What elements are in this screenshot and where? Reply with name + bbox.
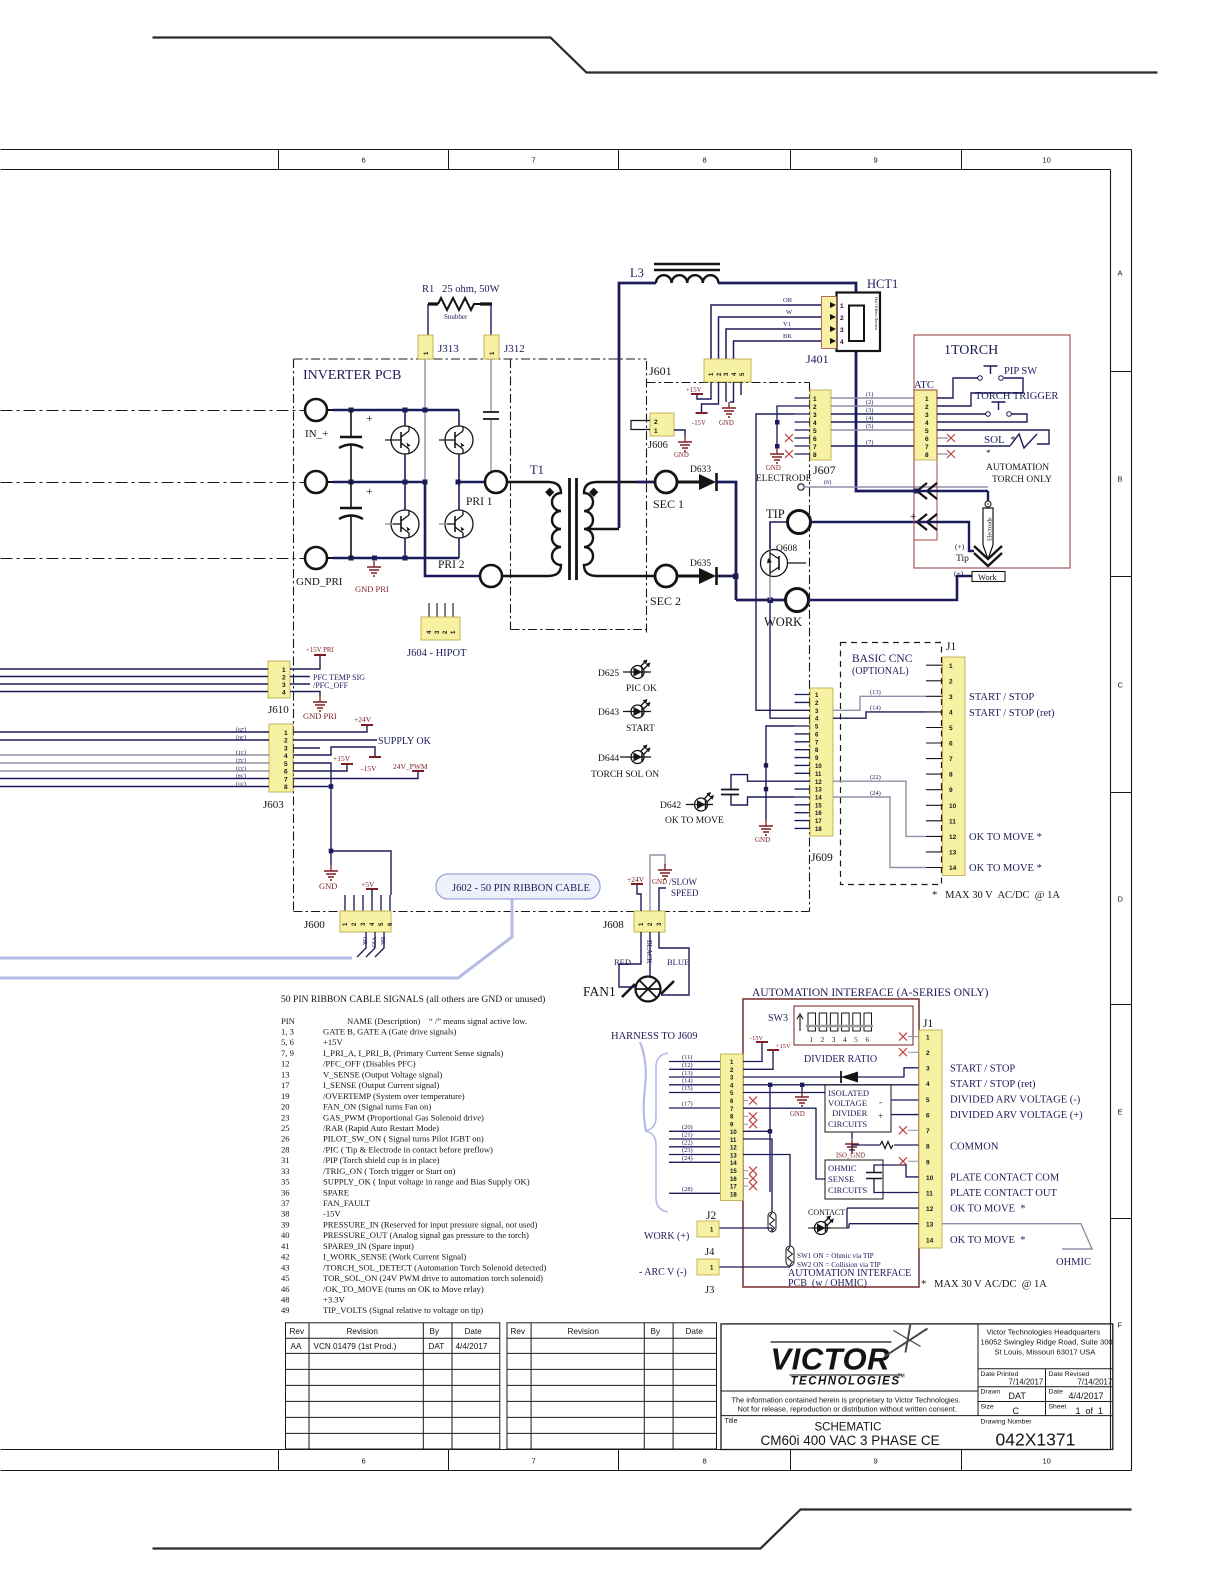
svg-text:I_SENSE (Output Current signal: I_SENSE (Output Current signal) <box>323 1080 439 1090</box>
svg-text:-15V: -15V <box>361 764 377 773</box>
J607 left stubs <box>795 398 811 454</box>
svg-text:Snubber: Snubber <box>444 313 468 321</box>
wire L3 to HCT1 down to torch <box>718 283 916 491</box>
J607 right wires to ATC <box>831 397 916 399</box>
svg-text:GND PRI: GND PRI <box>303 711 337 721</box>
svg-text:7: 7 <box>925 444 929 451</box>
wires HCT1 to J601 <box>711 305 821 359</box>
svg-text:*: * <box>986 448 991 458</box>
wire (22) J609 p12 to J1 p12 <box>833 781 926 836</box>
svg-text:/RAR (Rapid Auto Restart Mode): /RAR (Rapid Auto Restart Mode) <box>323 1123 439 1133</box>
svg-text:SW3: SW3 <box>768 1013 788 1024</box>
svg-text:ISOLATED: ISOLATED <box>828 1088 869 1098</box>
gnd bus J609 pins 5,10,13 <box>766 726 795 820</box>
svg-text:(+): (+) <box>954 569 964 578</box>
svg-text:5: 5 <box>854 1036 858 1044</box>
wire secondary to SEC1 <box>637 481 655 484</box>
svg-text:(28): (28) <box>682 1186 693 1193</box>
automation signal labels <box>950 1064 1083 1247</box>
connector J610 <box>268 661 290 698</box>
svg-text:J2: J2 <box>706 1210 716 1222</box>
svg-text:49: 49 <box>281 1305 290 1315</box>
svg-text:11: 11 <box>926 1191 933 1198</box>
svg-text:BLACK: BLACK <box>645 940 653 964</box>
svg-text:J1: J1 <box>923 1018 933 1030</box>
svg-text:14: 14 <box>926 1238 934 1245</box>
J610 pin1 +15V PRI <box>290 655 320 669</box>
title block right column <box>981 1328 1113 1357</box>
T1 secondary winding <box>584 482 655 576</box>
svg-text:25: 25 <box>281 1123 290 1133</box>
svg-text:1: 1 <box>840 303 844 310</box>
svg-text:+15V: +15V <box>333 754 351 763</box>
svg-text:17: 17 <box>281 1080 290 1090</box>
svg-text:Q608: Q608 <box>776 544 797 554</box>
svg-text:43: 43 <box>281 1262 290 1272</box>
svg-text:Electrode: Electrode <box>987 517 994 541</box>
svg-text:INVERTER PCB: INVERTER PCB <box>303 368 401 383</box>
pin12/13 wires <box>847 1208 919 1224</box>
svg-text:1, 3: 1, 3 <box>281 1027 294 1037</box>
svg-text:GND: GND <box>755 836 770 844</box>
signal PFC TEMP SIG <box>290 676 310 678</box>
svg-text:CM60i 400 VAC 3 PHASE CE: CM60i 400 VAC 3 PHASE CE <box>761 1433 940 1448</box>
svg-text:14: 14 <box>815 796 822 802</box>
svg-text:J312: J312 <box>504 343 525 355</box>
svg-text:PRESSURE_OUT (Analog signal ga: PRESSURE_OUT (Analog signal gas pressure… <box>323 1230 529 1240</box>
J601 pin2 to -15V <box>702 382 719 413</box>
svg-text:VOLTAGE: VOLTAGE <box>828 1098 867 1108</box>
svg-text:- ARC V (-): - ARC V (-) <box>639 1267 687 1278</box>
svg-text:(22): (22) <box>682 1140 693 1147</box>
input bus dashed lines <box>1 411 306 559</box>
svg-text:START: START <box>626 724 655 734</box>
svg-text:(13): (13) <box>870 689 881 696</box>
svg-text:(12): (12) <box>682 1062 693 1069</box>
svg-text:Size: Size <box>981 1404 994 1411</box>
svg-text:GAS_PWM (Proportional Gas Sol: GAS_PWM (Proportional Gas Solenoid drive… <box>323 1112 484 1122</box>
svg-text:4: 4 <box>284 753 288 760</box>
svg-text:2: 2 <box>654 419 658 426</box>
svg-text:The information contained here: The information contained herein is prop… <box>732 1396 961 1405</box>
svg-text:7: 7 <box>926 1128 930 1135</box>
svg-text:40: 40 <box>281 1230 290 1240</box>
wire J313 down <box>424 359 426 482</box>
svg-text:OHMIC: OHMIC <box>1056 1257 1091 1268</box>
svg-text:12: 12 <box>281 1059 290 1069</box>
svg-text:I_PRI_A, I_PRI_B, (Primary Cu: I_PRI_A, I_PRI_B, (Primary Current Sense… <box>323 1048 503 1058</box>
svg-text:B: B <box>1118 475 1123 484</box>
svg-text:2: 2 <box>813 404 817 411</box>
terminal PRI 2 <box>480 565 502 587</box>
svg-text:I_WORK_SENSE (Work Current Sig: I_WORK_SENSE (Work Current Signal) <box>323 1252 466 1262</box>
svg-text:START / STOP (ret): START / STOP (ret) <box>950 1079 1036 1090</box>
svg-text:FAN1: FAN1 <box>583 984 616 999</box>
svg-text:J607: J607 <box>813 463 836 477</box>
top fold mark <box>153 38 1158 73</box>
svg-text:3: 3 <box>926 1066 930 1073</box>
svg-text:J600: J600 <box>304 919 325 931</box>
svg-text:6: 6 <box>949 741 953 748</box>
svg-text:GND PRI: GND PRI <box>355 584 389 594</box>
svg-text:6: 6 <box>866 1036 870 1044</box>
svg-text:PCB (w / OHMIC): PCB (w / OHMIC) <box>788 1278 867 1289</box>
svg-text:4: 4 <box>840 339 844 346</box>
svg-text:(20): (20) <box>682 1124 693 1131</box>
capacitor on J312 line <box>483 412 499 419</box>
svg-text:+3.3V: +3.3V <box>323 1295 346 1305</box>
svg-text:GND: GND <box>319 881 337 891</box>
bottom rail wire <box>333 557 459 560</box>
J607 pin2/4/7 ground <box>777 406 795 448</box>
svg-text:PLATE CONTACT COM: PLATE CONTACT COM <box>950 1173 1060 1184</box>
svg-text:/OK_TO_MOVE (turns on OK to Mo: /OK_TO_MOVE (turns on OK to Move relay) <box>323 1284 484 1294</box>
svg-text:15: 15 <box>730 1169 737 1175</box>
J603 pin6 +15V <box>293 764 347 771</box>
power +5V <box>366 888 378 890</box>
capacitor bracket pins 12/14 <box>731 775 795 789</box>
svg-text:SUPPLY OK: SUPPLY OK <box>378 736 432 747</box>
svg-text:35: 35 <box>281 1177 290 1187</box>
logo star <box>885 1324 928 1357</box>
svg-text:D643: D643 <box>598 708 619 718</box>
svg-text:GND: GND <box>719 420 734 427</box>
svg-text:Date: Date <box>686 1327 704 1336</box>
svg-text:42: 42 <box>281 1252 290 1262</box>
svg-text:SENSE: SENSE <box>828 1174 854 1184</box>
svg-text:START / STOP: START / STOP <box>969 692 1034 703</box>
svg-text:37: 37 <box>281 1198 290 1208</box>
svg-text:9: 9 <box>926 1160 930 1167</box>
svg-text:SCHEMATIC: SCHEMATIC <box>815 1422 882 1434</box>
pin4 net with gnd <box>743 1084 919 1086</box>
wire center tap bus up to L3 <box>619 283 656 528</box>
svg-text:41: 41 <box>281 1241 290 1251</box>
electrolytic cap C-top <box>350 410 352 482</box>
svg-text:COMMON: COMMON <box>950 1142 999 1153</box>
svg-text:12: 12 <box>949 834 957 841</box>
wire TIP right to torch <box>811 521 917 524</box>
svg-text:+24V: +24V <box>354 715 372 724</box>
svg-text:26: 26 <box>281 1134 290 1144</box>
svg-text:4/4/2017: 4/4/2017 <box>456 1342 488 1351</box>
connector J401 <box>822 297 837 349</box>
svg-text:TORCH ONLY: TORCH ONLY <box>992 475 1052 485</box>
svg-text:13: 13 <box>730 1154 737 1160</box>
svg-text:50 PIN RIBBON CABLE SIGNALS (a: 50 PIN RIBBON CABLE SIGNALS (all others … <box>281 994 545 1005</box>
svg-text:11: 11 <box>730 1138 737 1144</box>
svg-text:Title: Title <box>725 1418 738 1425</box>
svg-text:BASIC CNC: BASIC CNC <box>852 653 913 665</box>
svg-text:Tip: Tip <box>956 554 969 564</box>
T1 primary winding <box>502 482 561 576</box>
svg-text:PIC OK: PIC OK <box>626 684 657 694</box>
svg-text:/PFC_OFF (Disables PFC): /PFC_OFF (Disables PFC) <box>323 1059 416 1069</box>
connector J2 <box>721 1054 744 1201</box>
svg-text:9: 9 <box>949 787 953 794</box>
svg-text:16052 Swingley Ridge Road, Sui: 16052 Swingley Ridge Road, Suite 300 <box>981 1338 1113 1347</box>
svg-text:C: C <box>1118 681 1124 690</box>
connector J609 <box>810 688 833 836</box>
wire diode cathodes join <box>717 482 736 600</box>
svg-text:SUPPLY_OK ( Input voltage in r: SUPPLY_OK ( Input voltage in range and B… <box>323 1177 530 1187</box>
wire right column to PRI1 <box>459 481 485 484</box>
svg-text:8: 8 <box>949 772 953 779</box>
svg-text:/SLOW: /SLOW <box>669 877 698 887</box>
svg-text:5: 5 <box>949 725 953 732</box>
svg-text:3: 3 <box>284 746 288 753</box>
svg-text:+24V: +24V <box>627 875 645 884</box>
svg-text:Rev: Rev <box>511 1327 526 1336</box>
svg-text:(17): (17) <box>682 1101 693 1108</box>
connector J3 <box>697 1259 719 1275</box>
J603 pin3 stub <box>293 747 320 749</box>
divider outputs <box>891 1100 919 1115</box>
svg-text:24V_PWM: 24V_PWM <box>393 762 428 771</box>
svg-text:10: 10 <box>730 1130 737 1136</box>
resistor to common <box>852 1145 919 1152</box>
svg-text:J610: J610 <box>268 704 289 716</box>
connector J606 <box>650 413 674 436</box>
wire R1 to J313 <box>427 304 429 335</box>
svg-text:By: By <box>430 1327 440 1336</box>
J601 pin1 to +15V <box>697 382 711 399</box>
connector J607 <box>810 390 831 460</box>
svg-text:/TRIG_ON ( Torch trigger or St: /TRIG_ON ( Torch trigger or Start on) <box>323 1166 456 1176</box>
svg-text:1: 1 <box>284 730 288 737</box>
svg-text:5: 5 <box>813 428 817 435</box>
svg-text:6: 6 <box>813 436 817 443</box>
svg-text:DAT: DAT <box>1009 1391 1027 1401</box>
svg-text:36: 36 <box>281 1187 290 1197</box>
svg-text:Date: Date <box>1049 1389 1064 1396</box>
svg-text:E: E <box>1118 1108 1123 1117</box>
svg-text:J601: J601 <box>649 364 672 378</box>
svg-text:J313: J313 <box>438 343 459 355</box>
svg-text:-15V: -15V <box>750 1035 764 1042</box>
cap to plate contact <box>866 1173 882 1179</box>
svg-text:Hall Effect Sensor: Hall Effect Sensor <box>874 297 879 331</box>
wire branch to J600 pin6 <box>331 851 391 895</box>
J603 pin1 +24V <box>293 725 367 732</box>
svg-text:4: 4 <box>926 1081 930 1088</box>
svg-text:BK: BK <box>783 333 792 340</box>
svg-text:-: - <box>879 1097 882 1107</box>
wire WORK sense to J609 pin4 <box>770 600 795 718</box>
svg-text:D625: D625 <box>598 669 619 679</box>
svg-text:TORCH SOL ON: TORCH SOL ON <box>591 770 659 780</box>
svg-text:(21): (21) <box>682 1132 693 1139</box>
J603 pin5/pin8 gnd bus <box>293 763 331 850</box>
svg-text:D635: D635 <box>690 559 711 569</box>
svg-text:DIVIDER: DIVIDER <box>832 1108 868 1118</box>
svg-text:By: By <box>651 1327 661 1336</box>
svg-text:W: W <box>786 309 793 316</box>
wire TIP left to Q608 <box>770 522 788 549</box>
svg-text:5, 6: 5, 6 <box>281 1037 295 1047</box>
IGBT Q bottom-right <box>445 510 473 538</box>
IGBT Q bottom-left <box>391 510 419 538</box>
svg-text:OK TO MOVE *: OK TO MOVE * <box>969 863 1042 874</box>
X marks J2 pins <box>749 1097 757 1105</box>
svg-text:(15): (15) <box>682 1085 693 1092</box>
svg-text:START / STOP (ret): START / STOP (ret) <box>969 708 1055 719</box>
svg-text:OK TO MOVE *: OK TO MOVE * <box>969 832 1042 843</box>
junction dots <box>349 408 461 561</box>
svg-text:20: 20 <box>281 1102 290 1112</box>
svg-text:D644: D644 <box>598 754 619 764</box>
J2 pin11 resistor to J4 <box>743 1139 772 1212</box>
harness brace <box>645 1053 668 1212</box>
svg-text:10: 10 <box>926 1175 934 1182</box>
svg-text:(13): (13) <box>682 1070 693 1077</box>
signal /PFC_OFF <box>290 683 310 685</box>
connector J604 - HIPOT <box>429 603 453 617</box>
svg-text:(22): (22) <box>870 774 881 781</box>
svg-text:11: 11 <box>815 772 822 778</box>
svg-text:8: 8 <box>284 784 288 791</box>
svg-text:(4): (4) <box>866 415 873 422</box>
svg-text:7: 7 <box>949 756 953 763</box>
signal SUPPLY OK <box>293 739 377 741</box>
svg-text:(+): (+) <box>955 542 965 551</box>
svg-text:J401: J401 <box>806 352 829 366</box>
svg-text:4: 4 <box>282 690 286 697</box>
svg-text:/TORCH_SOL_DETECT (Automation: /TORCH_SOL_DETECT (Automation Torch Sole… <box>323 1262 546 1272</box>
svg-text:(31): (31) <box>236 749 246 756</box>
harness wires to J2 <box>669 1062 721 1194</box>
svg-text:+: + <box>910 511 916 523</box>
svg-text:14: 14 <box>730 1161 737 1167</box>
svg-text:OR: OR <box>361 937 367 945</box>
svg-text:+15V: +15V <box>323 1037 343 1047</box>
isolated voltage divider circuits <box>825 1085 891 1132</box>
svg-text:17: 17 <box>815 819 822 825</box>
svg-text:* MAX 30 V AC/DC @ 1A: * MAX 30 V AC/DC @ 1A <box>932 890 1060 901</box>
svg-text:7: 7 <box>532 156 536 165</box>
input terminal IN_+ <box>305 399 327 421</box>
connector J601 <box>704 359 751 382</box>
svg-text:SW1 ON = Ohmic via TIP: SW1 ON = Ohmic via TIP <box>797 1252 874 1260</box>
svg-text:(3): (3) <box>866 407 873 414</box>
svg-text:13: 13 <box>281 1069 290 1079</box>
svg-text:/PFC_OFF: /PFC_OFF <box>313 681 349 690</box>
svg-text:PIN: PIN <box>281 1016 296 1026</box>
svg-text:VICTOR: VICTOR <box>771 1342 891 1377</box>
electrolytic cap C-bottom <box>350 482 352 558</box>
svg-text:HARNESS TO J609: HARNESS TO J609 <box>611 1031 698 1042</box>
svg-text:3: 3 <box>840 327 844 334</box>
svg-text:3: 3 <box>925 412 929 419</box>
connector J600 <box>345 895 390 911</box>
J607 pin3 wire down to J609 pin3 <box>756 414 795 710</box>
svg-text:PIP SW: PIP SW <box>1004 366 1037 377</box>
svg-text:FAN_FAULT: FAN_FAULT <box>323 1198 371 1208</box>
svg-text:15: 15 <box>815 804 822 810</box>
svg-text:7, 9: 7, 9 <box>281 1048 294 1058</box>
svg-text:J603: J603 <box>263 799 284 811</box>
svg-text:7: 7 <box>813 444 817 451</box>
bridge column wires <box>404 410 406 558</box>
mid rail wire <box>333 481 425 484</box>
svg-text:TIP: TIP <box>766 507 785 521</box>
electrode stick <box>987 491 989 501</box>
svg-text:GND: GND <box>766 465 781 472</box>
connector J312 <box>484 335 499 359</box>
svg-text:2: 2 <box>282 675 286 682</box>
svg-text:WORK (+): WORK (+) <box>644 1231 689 1242</box>
svg-text:1: 1 <box>925 396 929 403</box>
wire R1 to J312 <box>490 304 492 335</box>
pin5 into divider <box>743 1092 825 1094</box>
svg-text:8: 8 <box>925 452 929 459</box>
svg-text:19: 19 <box>281 1091 290 1101</box>
top border band <box>1 150 1132 170</box>
svg-text:GND: GND <box>790 1111 805 1118</box>
svg-text:SPARE: SPARE <box>323 1187 349 1197</box>
IGBT Q top-left <box>391 426 419 454</box>
svg-text:8: 8 <box>926 1144 930 1151</box>
J603 pin7 24V_PWM <box>293 771 418 779</box>
svg-text:* MAX 30 V AC/DC @ 1A: * MAX 30 V AC/DC @ 1A <box>921 1279 1047 1290</box>
connector J603 <box>269 724 293 792</box>
bottom fold mark <box>153 1510 1132 1549</box>
J610 pin4 GND PRI <box>290 692 320 697</box>
svg-text:CONTACT: CONTACT <box>808 1208 845 1217</box>
svg-text:Victor Technologies Headquarte: Victor Technologies Headquarters <box>987 1328 1101 1337</box>
svg-text:GND: GND <box>652 878 667 886</box>
svg-text:(14): (14) <box>682 1078 693 1085</box>
svg-text:J602 - 50 PIN RIBBON CABLE: J602 - 50 PIN RIBBON CABLE <box>452 883 590 894</box>
ohmic sense circuits <box>825 1160 883 1199</box>
svg-text:10: 10 <box>1043 156 1051 165</box>
svg-text:38: 38 <box>281 1209 290 1219</box>
svg-text:3: 3 <box>813 412 817 419</box>
svg-text:J608: J608 <box>603 919 624 931</box>
svg-text:(2): (2) <box>866 399 873 406</box>
connector J4 <box>697 1221 719 1237</box>
svg-text:V1: V1 <box>783 321 791 328</box>
J609 left stubs <box>795 695 811 829</box>
svg-text:TECHNOLOGIES: TECHNOLOGIES <box>791 1376 901 1388</box>
svg-text:PRI 1: PRI 1 <box>466 496 493 508</box>
J603 input wires <box>0 732 269 740</box>
svg-text:2: 2 <box>840 315 844 322</box>
right border strip <box>1111 150 1132 1471</box>
svg-text:1: 1 <box>813 396 817 403</box>
svg-text:D633: D633 <box>690 465 711 475</box>
svg-text:1: 1 <box>926 1035 930 1042</box>
svg-text:J4: J4 <box>705 1247 715 1258</box>
ground GND PRI <box>367 561 381 576</box>
svg-text:ELECTRODE: ELECTRODE <box>756 474 812 484</box>
svg-text:D642: D642 <box>660 801 681 811</box>
svg-text:16: 16 <box>815 811 822 817</box>
svg-text:F: F <box>1118 1321 1123 1330</box>
svg-text:13: 13 <box>926 1222 934 1229</box>
svg-text:OR: OR <box>783 297 793 304</box>
svg-text:OHMIC: OHMIC <box>828 1163 857 1173</box>
svg-text:4: 4 <box>843 1036 847 1044</box>
svg-text:(6): (6) <box>824 479 831 486</box>
svg-text:Date: Date <box>465 1327 483 1336</box>
T1 core <box>570 478 577 580</box>
J610 input wires <box>0 669 268 692</box>
J606 jumper loop <box>631 421 650 430</box>
wire mid node down to PRI2 <box>425 482 480 576</box>
input terminal mid <box>305 471 327 493</box>
svg-text:10: 10 <box>1043 1457 1051 1466</box>
